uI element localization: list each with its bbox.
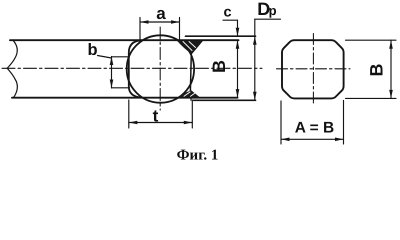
dimension b ticks bbox=[112, 57, 130, 88]
break line left end bbox=[7, 40, 17, 97]
profile left edge with corner radii bbox=[129, 40, 141, 97]
dimension A=B extension lines bbox=[281, 101, 344, 145]
centerline shaft axis bbox=[2, 67, 262, 69]
centerline circle vertical bbox=[159, 27, 161, 110]
wire top flat line bbox=[10, 39, 239, 41]
svg-text:Фиг. 1: Фиг. 1 bbox=[177, 148, 219, 164]
chamfer top right bbox=[191, 40, 202, 53]
shaft Dp bottom line bbox=[194, 99, 256, 101]
dimension B left view line bbox=[237, 40, 239, 97]
circle Dp bbox=[127, 35, 194, 102]
chamfer bottom right bbox=[190, 91, 199, 98]
svg-text:b: b bbox=[87, 41, 97, 59]
dimension Dp line bbox=[254, 19, 256, 100]
svg-text:B: B bbox=[366, 64, 386, 77]
dimension Dp shoulder bbox=[255, 18, 281, 20]
hatched triangle bottom right bbox=[179, 91, 200, 97]
profile right edge bbox=[189, 54, 192, 91]
dimension t line with arrows bbox=[129, 122, 193, 124]
wire bottom flat line bbox=[12, 97, 238, 99]
dimension a extension lines bbox=[140, 18, 180, 40]
centerline right view vertical bbox=[312, 34, 314, 106]
dimension B right view extension lines bbox=[346, 40, 397, 98]
dimension B right view line bbox=[390, 40, 392, 98]
wire corner silhouette stub bbox=[190, 98, 192, 101]
shaft Dp top line bbox=[186, 35, 256, 37]
svg-text:B: B bbox=[209, 60, 229, 73]
dimension A=B line bbox=[281, 138, 344, 140]
hatched triangle top right bbox=[177, 41, 202, 54]
centerline right view horizontal bbox=[277, 68, 351, 70]
dimension c shoulder bbox=[223, 19, 238, 21]
right view square profile bbox=[282, 40, 344, 98]
svg-text:t: t bbox=[153, 107, 159, 126]
dimension b line with arrows bbox=[111, 57, 113, 89]
svg-text:a: a bbox=[156, 4, 166, 23]
dimension t extension lines bbox=[129, 100, 193, 128]
dimension c upper arrow bbox=[237, 20, 239, 36]
dimension a line with arrows bbox=[140, 21, 180, 23]
dimension b leader bbox=[98, 56, 112, 59]
svg-text:p: p bbox=[269, 3, 277, 18]
svg-text:c: c bbox=[224, 5, 232, 21]
svg-text:A = B: A = B bbox=[295, 120, 334, 137]
